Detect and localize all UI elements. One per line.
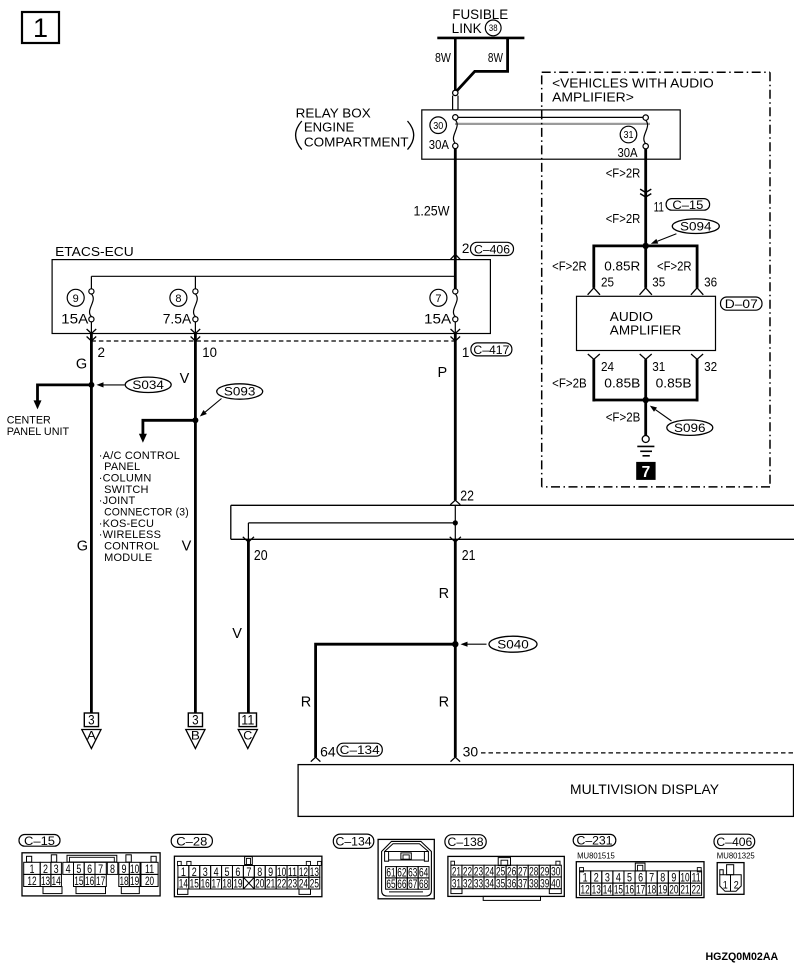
svg-text:22: 22 <box>460 488 474 505</box>
svg-text:21: 21 <box>462 547 476 564</box>
svg-text:12: 12 <box>27 874 36 888</box>
svg-text:·JOINT: ·JOINT <box>99 495 136 507</box>
svg-text:17: 17 <box>636 883 645 897</box>
svg-text:30: 30 <box>433 121 443 132</box>
svg-text:14: 14 <box>603 883 612 897</box>
svg-text:9: 9 <box>73 293 79 305</box>
svg-text:31: 31 <box>452 876 461 890</box>
svg-text:15A: 15A <box>61 310 89 326</box>
svg-text:19: 19 <box>658 883 667 897</box>
svg-text:1: 1 <box>462 345 470 360</box>
svg-text:7: 7 <box>435 293 441 305</box>
svg-text:14: 14 <box>52 874 61 888</box>
svg-text:19: 19 <box>233 877 242 891</box>
svg-text:·WIRELESS: ·WIRELESS <box>99 529 161 541</box>
svg-text:15: 15 <box>74 874 83 888</box>
svg-text:V: V <box>232 626 242 642</box>
svg-text:V: V <box>180 371 190 387</box>
svg-text:FUSIBLE: FUSIBLE <box>452 7 508 22</box>
svg-text:20: 20 <box>669 883 678 897</box>
svg-text:24: 24 <box>601 359 614 374</box>
svg-text:C–15: C–15 <box>672 198 703 212</box>
svg-text:C–406: C–406 <box>474 242 510 256</box>
svg-text:31: 31 <box>652 359 665 374</box>
svg-text:C–134: C–134 <box>340 745 381 757</box>
svg-text:MULTIVISION DISPLAY: MULTIVISION DISPLAY <box>570 782 719 797</box>
svg-text:V: V <box>182 538 192 554</box>
svg-text:COMPARTMENT: COMPARTMENT <box>304 134 409 149</box>
svg-text:2: 2 <box>734 880 739 892</box>
svg-text:CENTER: CENTER <box>7 415 51 427</box>
svg-text:C–15: C–15 <box>24 834 55 848</box>
svg-text:MU801325: MU801325 <box>717 851 755 861</box>
svg-text:PANEL: PANEL <box>104 461 140 473</box>
svg-text:66: 66 <box>397 877 406 891</box>
svg-text:16: 16 <box>201 877 210 891</box>
svg-text:2: 2 <box>98 345 106 360</box>
svg-text:11: 11 <box>654 199 664 214</box>
svg-text:A: A <box>87 728 96 742</box>
svg-text:8W: 8W <box>435 50 451 65</box>
svg-text:67: 67 <box>408 877 417 891</box>
svg-text:11: 11 <box>241 712 254 727</box>
svg-text:ETACS-ECU: ETACS-ECU <box>55 244 134 259</box>
svg-text:16: 16 <box>625 883 634 897</box>
svg-text:13: 13 <box>592 883 601 897</box>
svg-text:23: 23 <box>288 877 297 891</box>
svg-text:35: 35 <box>496 876 505 890</box>
svg-text:S034: S034 <box>132 378 164 392</box>
svg-text:3: 3 <box>192 712 199 727</box>
svg-text:3: 3 <box>88 712 95 727</box>
svg-text:37: 37 <box>518 876 527 890</box>
svg-text:17: 17 <box>212 877 221 891</box>
svg-text:15A: 15A <box>424 310 452 326</box>
svg-text:20: 20 <box>254 547 268 564</box>
svg-text:<F>2B: <F>2B <box>606 410 641 425</box>
svg-text:24: 24 <box>299 877 308 891</box>
svg-text:LINK: LINK <box>452 21 482 36</box>
svg-text:R: R <box>301 694 311 710</box>
svg-text:7.5A: 7.5A <box>163 310 192 326</box>
svg-text:2: 2 <box>462 241 470 256</box>
svg-text:30: 30 <box>463 743 479 759</box>
svg-text:15: 15 <box>190 877 199 891</box>
svg-text:S094: S094 <box>680 219 712 233</box>
svg-text:B: B <box>191 728 200 742</box>
svg-text:8: 8 <box>175 293 181 305</box>
svg-text:65: 65 <box>386 877 395 891</box>
svg-text:·COLUMN: ·COLUMN <box>99 472 152 484</box>
svg-text:G: G <box>77 538 88 554</box>
svg-text:C–134: C–134 <box>336 835 372 849</box>
svg-text:18: 18 <box>119 874 128 888</box>
svg-text:<F>2B: <F>2B <box>552 375 587 390</box>
svg-text:68: 68 <box>419 877 428 891</box>
svg-text:64: 64 <box>320 743 336 759</box>
svg-text:<F>2R: <F>2R <box>606 211 641 226</box>
svg-text:38: 38 <box>489 23 498 33</box>
svg-text:MU801515: MU801515 <box>577 850 615 860</box>
svg-text:HGZQ0M02AA: HGZQ0M02AA <box>706 951 779 963</box>
svg-text:C–231: C–231 <box>577 834 613 848</box>
svg-text:31: 31 <box>624 130 634 141</box>
svg-text:<F>2R: <F>2R <box>606 166 641 181</box>
svg-text:CONNECTOR (3): CONNECTOR (3) <box>104 507 189 519</box>
svg-text:15: 15 <box>614 883 623 897</box>
svg-text:S040: S040 <box>497 637 529 651</box>
svg-text:22: 22 <box>277 877 286 891</box>
svg-text:0.85B: 0.85B <box>604 375 640 390</box>
svg-text:36: 36 <box>507 876 516 890</box>
svg-text:35: 35 <box>652 274 665 289</box>
svg-text:36: 36 <box>704 274 717 289</box>
svg-text:32: 32 <box>463 876 472 890</box>
svg-text:CONTROL: CONTROL <box>104 541 159 553</box>
svg-text:AMPLIFIER>: AMPLIFIER> <box>552 90 634 105</box>
svg-text:<F>2R: <F>2R <box>552 259 587 274</box>
svg-text:C–417: C–417 <box>473 343 509 357</box>
svg-text:RELAY BOX: RELAY BOX <box>296 106 371 121</box>
svg-text:25: 25 <box>601 274 614 289</box>
svg-text:C–406: C–406 <box>716 835 752 849</box>
svg-text:22: 22 <box>691 883 700 897</box>
svg-text:P: P <box>438 365 448 381</box>
svg-text:PANEL UNIT: PANEL UNIT <box>7 426 70 438</box>
svg-text:13: 13 <box>41 874 50 888</box>
svg-text:4: 4 <box>66 862 71 876</box>
svg-text:40: 40 <box>551 876 560 890</box>
svg-text:C–28: C–28 <box>176 834 207 848</box>
svg-text:39: 39 <box>540 876 549 890</box>
svg-text:20: 20 <box>255 877 264 891</box>
svg-text:30A: 30A <box>429 137 449 152</box>
svg-text:12: 12 <box>581 883 590 897</box>
svg-text:S096: S096 <box>674 421 706 435</box>
svg-text:34: 34 <box>485 876 494 890</box>
svg-text:16: 16 <box>85 874 94 888</box>
svg-text:<F>2R: <F>2R <box>657 259 692 274</box>
svg-text:21: 21 <box>266 877 275 891</box>
svg-text:7: 7 <box>642 464 651 481</box>
svg-text:25: 25 <box>310 877 319 891</box>
svg-text:21: 21 <box>680 883 689 897</box>
svg-text:32: 32 <box>704 359 717 374</box>
svg-text:19: 19 <box>130 874 139 888</box>
svg-text:20: 20 <box>145 874 154 888</box>
svg-text:MODULE: MODULE <box>104 552 152 564</box>
svg-text:R: R <box>439 586 449 602</box>
svg-text:33: 33 <box>474 876 483 890</box>
svg-text:8: 8 <box>110 862 115 876</box>
svg-text:18: 18 <box>647 883 656 897</box>
svg-text:AMPLIFIER: AMPLIFIER <box>610 323 682 338</box>
svg-text:7: 7 <box>246 865 251 879</box>
svg-text:G: G <box>76 357 87 373</box>
svg-text:1: 1 <box>723 880 728 892</box>
svg-text:ENGINE: ENGINE <box>304 120 355 135</box>
svg-text:C–138: C–138 <box>448 835 484 849</box>
svg-text:0.85B: 0.85B <box>656 375 692 390</box>
svg-text:8W: 8W <box>488 50 504 65</box>
svg-text:18: 18 <box>222 877 231 891</box>
svg-text:·KOS-ECU: ·KOS-ECU <box>99 518 154 530</box>
svg-text:R: R <box>439 694 449 710</box>
svg-text:17: 17 <box>96 874 105 888</box>
svg-text:1: 1 <box>33 13 48 43</box>
svg-text:38: 38 <box>529 876 538 890</box>
svg-text:10: 10 <box>202 345 217 360</box>
svg-text:SWITCH: SWITCH <box>104 484 149 496</box>
svg-text:D–07: D–07 <box>725 297 758 311</box>
svg-text:1.25W: 1.25W <box>414 203 450 218</box>
svg-text:S093: S093 <box>224 385 256 399</box>
svg-text:30A: 30A <box>618 145 638 160</box>
svg-text:·A/C CONTROL: ·A/C CONTROL <box>99 450 180 462</box>
svg-text:<VEHICLES WITH AUDIO: <VEHICLES WITH AUDIO <box>552 76 714 91</box>
svg-text:14: 14 <box>179 877 188 891</box>
svg-text:0.85R: 0.85R <box>604 259 640 274</box>
svg-text:C: C <box>243 728 252 742</box>
